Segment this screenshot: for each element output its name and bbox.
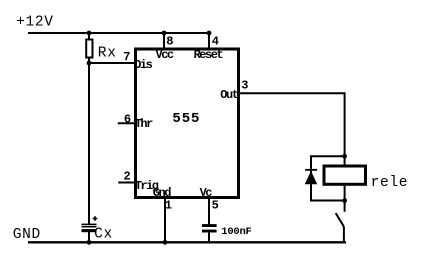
svg-text:Vcc: Vcc (156, 48, 174, 62)
svg-text:Out: Out (220, 88, 238, 102)
svg-text:Cx: Cx (94, 227, 113, 243)
svg-text:Thr: Thr (135, 117, 153, 131)
svg-text:GND: GND (13, 227, 41, 243)
svg-text:Dis: Dis (134, 58, 152, 72)
svg-text:Reset: Reset (194, 48, 224, 62)
svg-text:Vc: Vc (200, 186, 213, 200)
svg-text:555: 555 (172, 111, 200, 127)
svg-text:+12V: +12V (16, 15, 54, 31)
svg-text:Rx: Rx (98, 46, 117, 62)
svg-text:Gnd: Gnd (153, 186, 171, 200)
svg-text:rele: rele (371, 175, 409, 191)
svg-text:100nF: 100nF (221, 226, 251, 238)
